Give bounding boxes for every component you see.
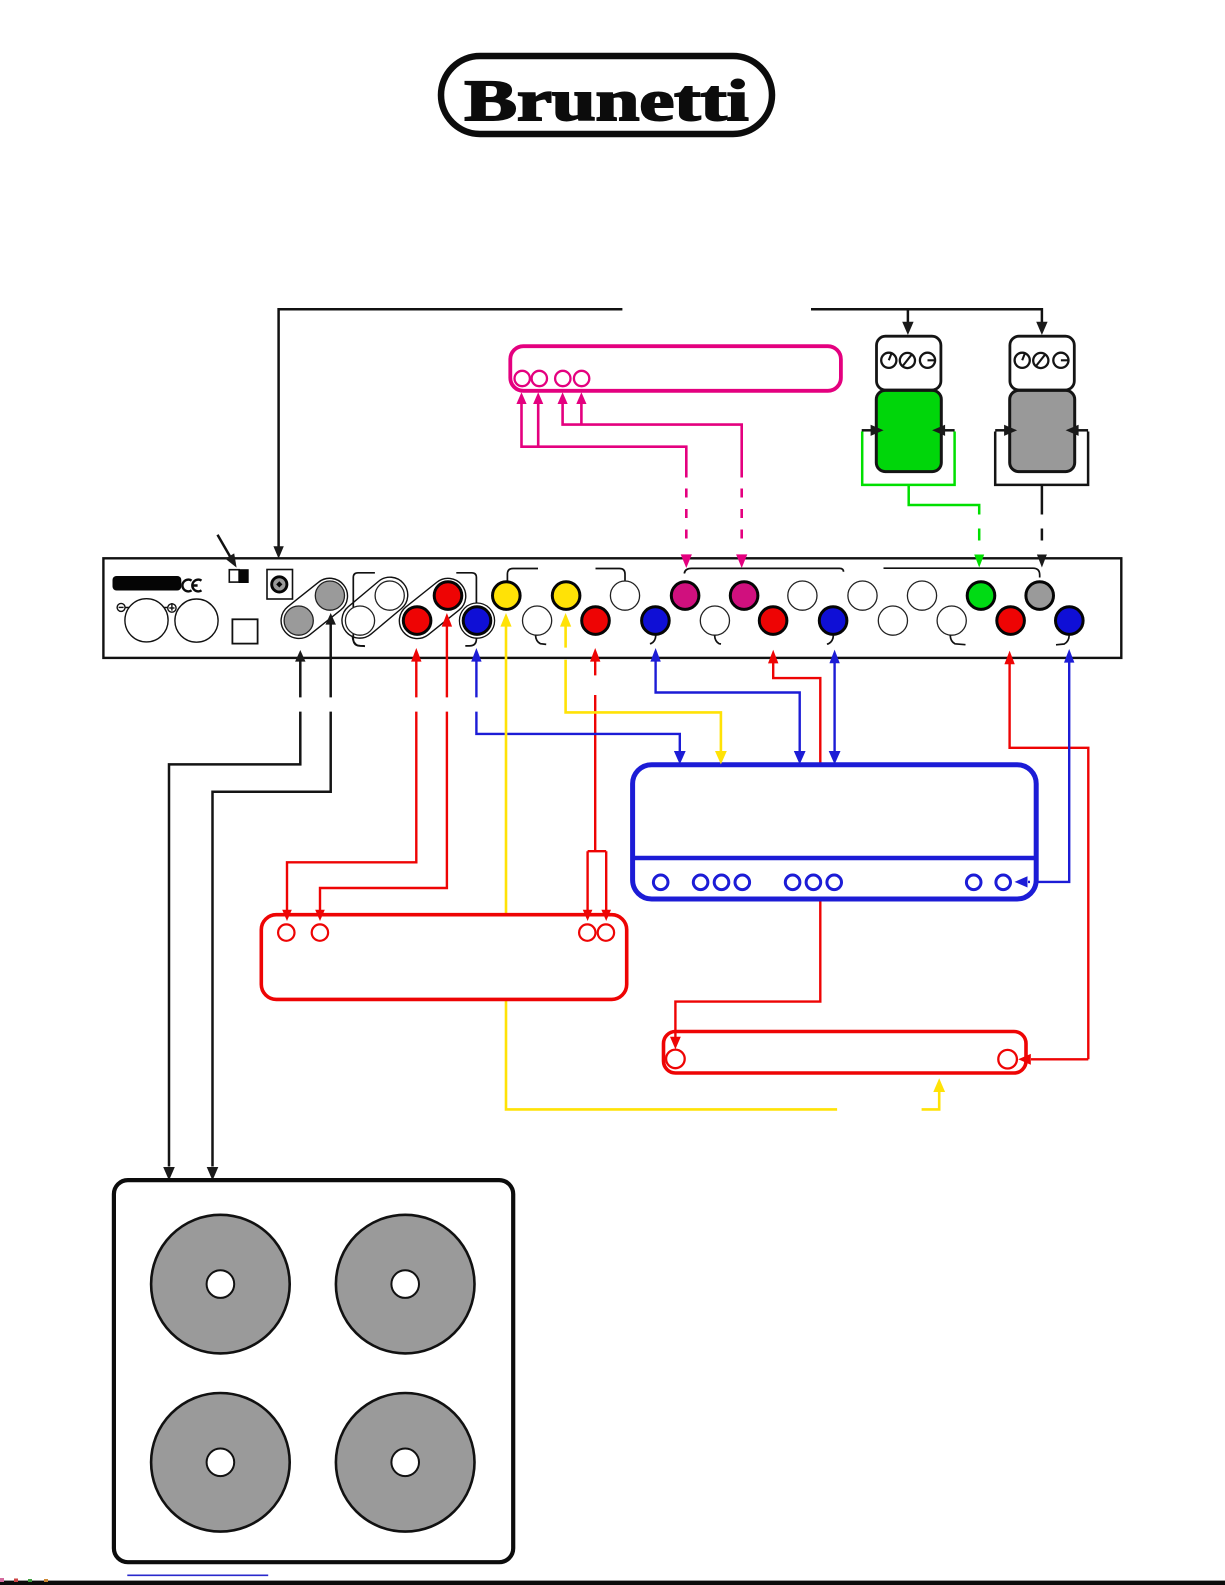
Brunetti logo (441, 56, 772, 134)
arrow B1 into controller top (674, 751, 686, 764)
pedalboard input 1 (278, 924, 294, 940)
loop jack green (967, 582, 995, 610)
scan specks (0, 1578, 48, 1582)
pedalboard input 3 (579, 924, 595, 940)
yellow wire Y2 send to midi controller (560, 613, 721, 751)
arrow power cord into panel (273, 546, 283, 558)
yellow wire Y1 long send (500, 613, 939, 1109)
pedalboard (red box 1) (261, 915, 626, 1000)
minus terminal (117, 603, 125, 611)
return jack red 2 (759, 607, 787, 635)
arrow to voltage switch (218, 535, 237, 568)
arrow Y2 into controller top (715, 751, 727, 764)
arrow green into panel (974, 555, 984, 568)
speaker 2 (336, 1215, 475, 1354)
pedal 2 input stub arrow (995, 425, 1017, 436)
stadium around white jack pair (335, 570, 415, 645)
wire pedal feed top line (811, 309, 1042, 322)
pedal 1 input stub arrow (862, 425, 884, 436)
polarity line (125, 607, 169, 609)
red wire R2 to pedalboard in2 (320, 613, 452, 910)
jack white lower 3 (700, 606, 729, 644)
jack white lower 2 (523, 606, 552, 644)
jack white lower 4 (878, 606, 907, 635)
pedalboard input 2 (312, 924, 328, 940)
magenta wire pair B (558, 392, 748, 568)
jack white upper 3 (788, 581, 817, 610)
speaker cabinet (114, 1180, 513, 1562)
pedal 2 drop wire black (1041, 485, 1044, 515)
pedal 2 loop cable (black U) (995, 432, 1088, 485)
arrow B3 into controller top (794, 751, 806, 764)
switcher (red box 2) (664, 1032, 1027, 1074)
speaker wire A (163, 650, 305, 1181)
arrow black into panel (1037, 555, 1047, 568)
stadium around red jack pair (392, 571, 473, 646)
pedal 1 drop wire green (909, 485, 980, 515)
svg-text:Brunetti: Brunetti (465, 68, 749, 133)
hyperlink underline (127, 1574, 268, 1576)
bracket over green group (884, 568, 1040, 577)
jack white upper 4 (848, 581, 877, 610)
bottom page bar (0, 1581, 1225, 1585)
pedal 1 (chorus) (876, 336, 941, 471)
midi/effects unit (magenta box) (510, 346, 841, 391)
blue wire B2 to midi controller right (1030, 649, 1074, 882)
footswitch jack blue 1 (459, 603, 494, 638)
pedal 2 output stub arrow (1066, 425, 1089, 436)
pedal 1 loop cable (green U) (862, 432, 954, 485)
fuse square (232, 619, 257, 643)
arrow R3a into input3 (583, 910, 593, 921)
bracket over magenta group (684, 568, 843, 573)
stadium around gray jack pair (274, 571, 355, 646)
wire power cord left segment (279, 309, 623, 548)
blue wire B4 direct to midi controller (829, 650, 839, 751)
jack white lower 1 (345, 606, 374, 646)
jack white upper 2 (610, 581, 639, 610)
group bracket left (353, 573, 375, 646)
jack red lower 1 (403, 607, 431, 635)
loop jack magenta 1 (671, 582, 699, 610)
arrow R5 into switcher left jack (670, 1030, 681, 1049)
arrow Y1 into switcher bottom (933, 1078, 945, 1092)
CE mark (182, 580, 201, 592)
serial label (113, 576, 182, 591)
speaker 4 (336, 1393, 475, 1532)
speaker 1 (151, 1215, 290, 1354)
red wire R4 to switcher right (1004, 651, 1088, 1060)
red wire R3 split to pedalboard (588, 648, 607, 910)
plus terminal (168, 603, 176, 612)
arrow B4 into controller top (829, 751, 841, 764)
red wire R1 to pedalboard in1 (287, 648, 422, 910)
AC connector 1 (125, 599, 168, 642)
return jack red 3 (997, 607, 1025, 635)
red wire R5 to switcher left (675, 650, 820, 1030)
pedalboard input 4 (598, 924, 614, 940)
return jack red 1 (582, 607, 610, 635)
speaker wire B (207, 613, 336, 1181)
arrow R2 into input2 (315, 910, 325, 921)
loop jack gray (1026, 582, 1054, 610)
group bracket right (456, 573, 476, 646)
link to white jack (596, 569, 626, 582)
arrow into pedal 1 (902, 322, 913, 335)
footswitch jack blue 4 (1056, 607, 1084, 645)
magenta wire pair A (516, 392, 692, 568)
amp rear panel (103, 558, 1121, 658)
speaker 3 (151, 1393, 290, 1532)
pedal 2 (delay) (1010, 336, 1075, 471)
send jack yellow 1 (493, 582, 521, 610)
arrow R3b into input4 (601, 910, 611, 921)
arrow B2 into controller jack (1015, 876, 1031, 887)
footswitch jack blue 2 (642, 607, 670, 644)
AC connector 2 (175, 599, 218, 642)
blue wire B3 to midi controller (650, 648, 799, 751)
DC jack (267, 570, 293, 600)
pedal 1 output stub arrow (932, 425, 955, 436)
footswitch jack blue 3 (819, 607, 847, 644)
input jack gray upper (315, 581, 344, 610)
jack white lower 5 (937, 606, 966, 645)
loop jack magenta 2 (730, 582, 758, 610)
jack white upper 5 (907, 581, 936, 610)
link from yellow jack (507, 569, 538, 582)
jack red upper (434, 582, 462, 610)
blue wire B1 to midi controller (471, 648, 680, 751)
voltage switch (229, 570, 239, 582)
arrow R4 into switcher right jack (1018, 1054, 1088, 1065)
send jack yellow 2 (552, 582, 580, 610)
midi controller (blue box) (633, 765, 1037, 899)
speaker jack gray lower (284, 606, 313, 635)
arrow into pedal 2 (1036, 322, 1047, 335)
jack white upper 1 (375, 581, 404, 610)
arrow R1 into input1 (282, 910, 292, 921)
